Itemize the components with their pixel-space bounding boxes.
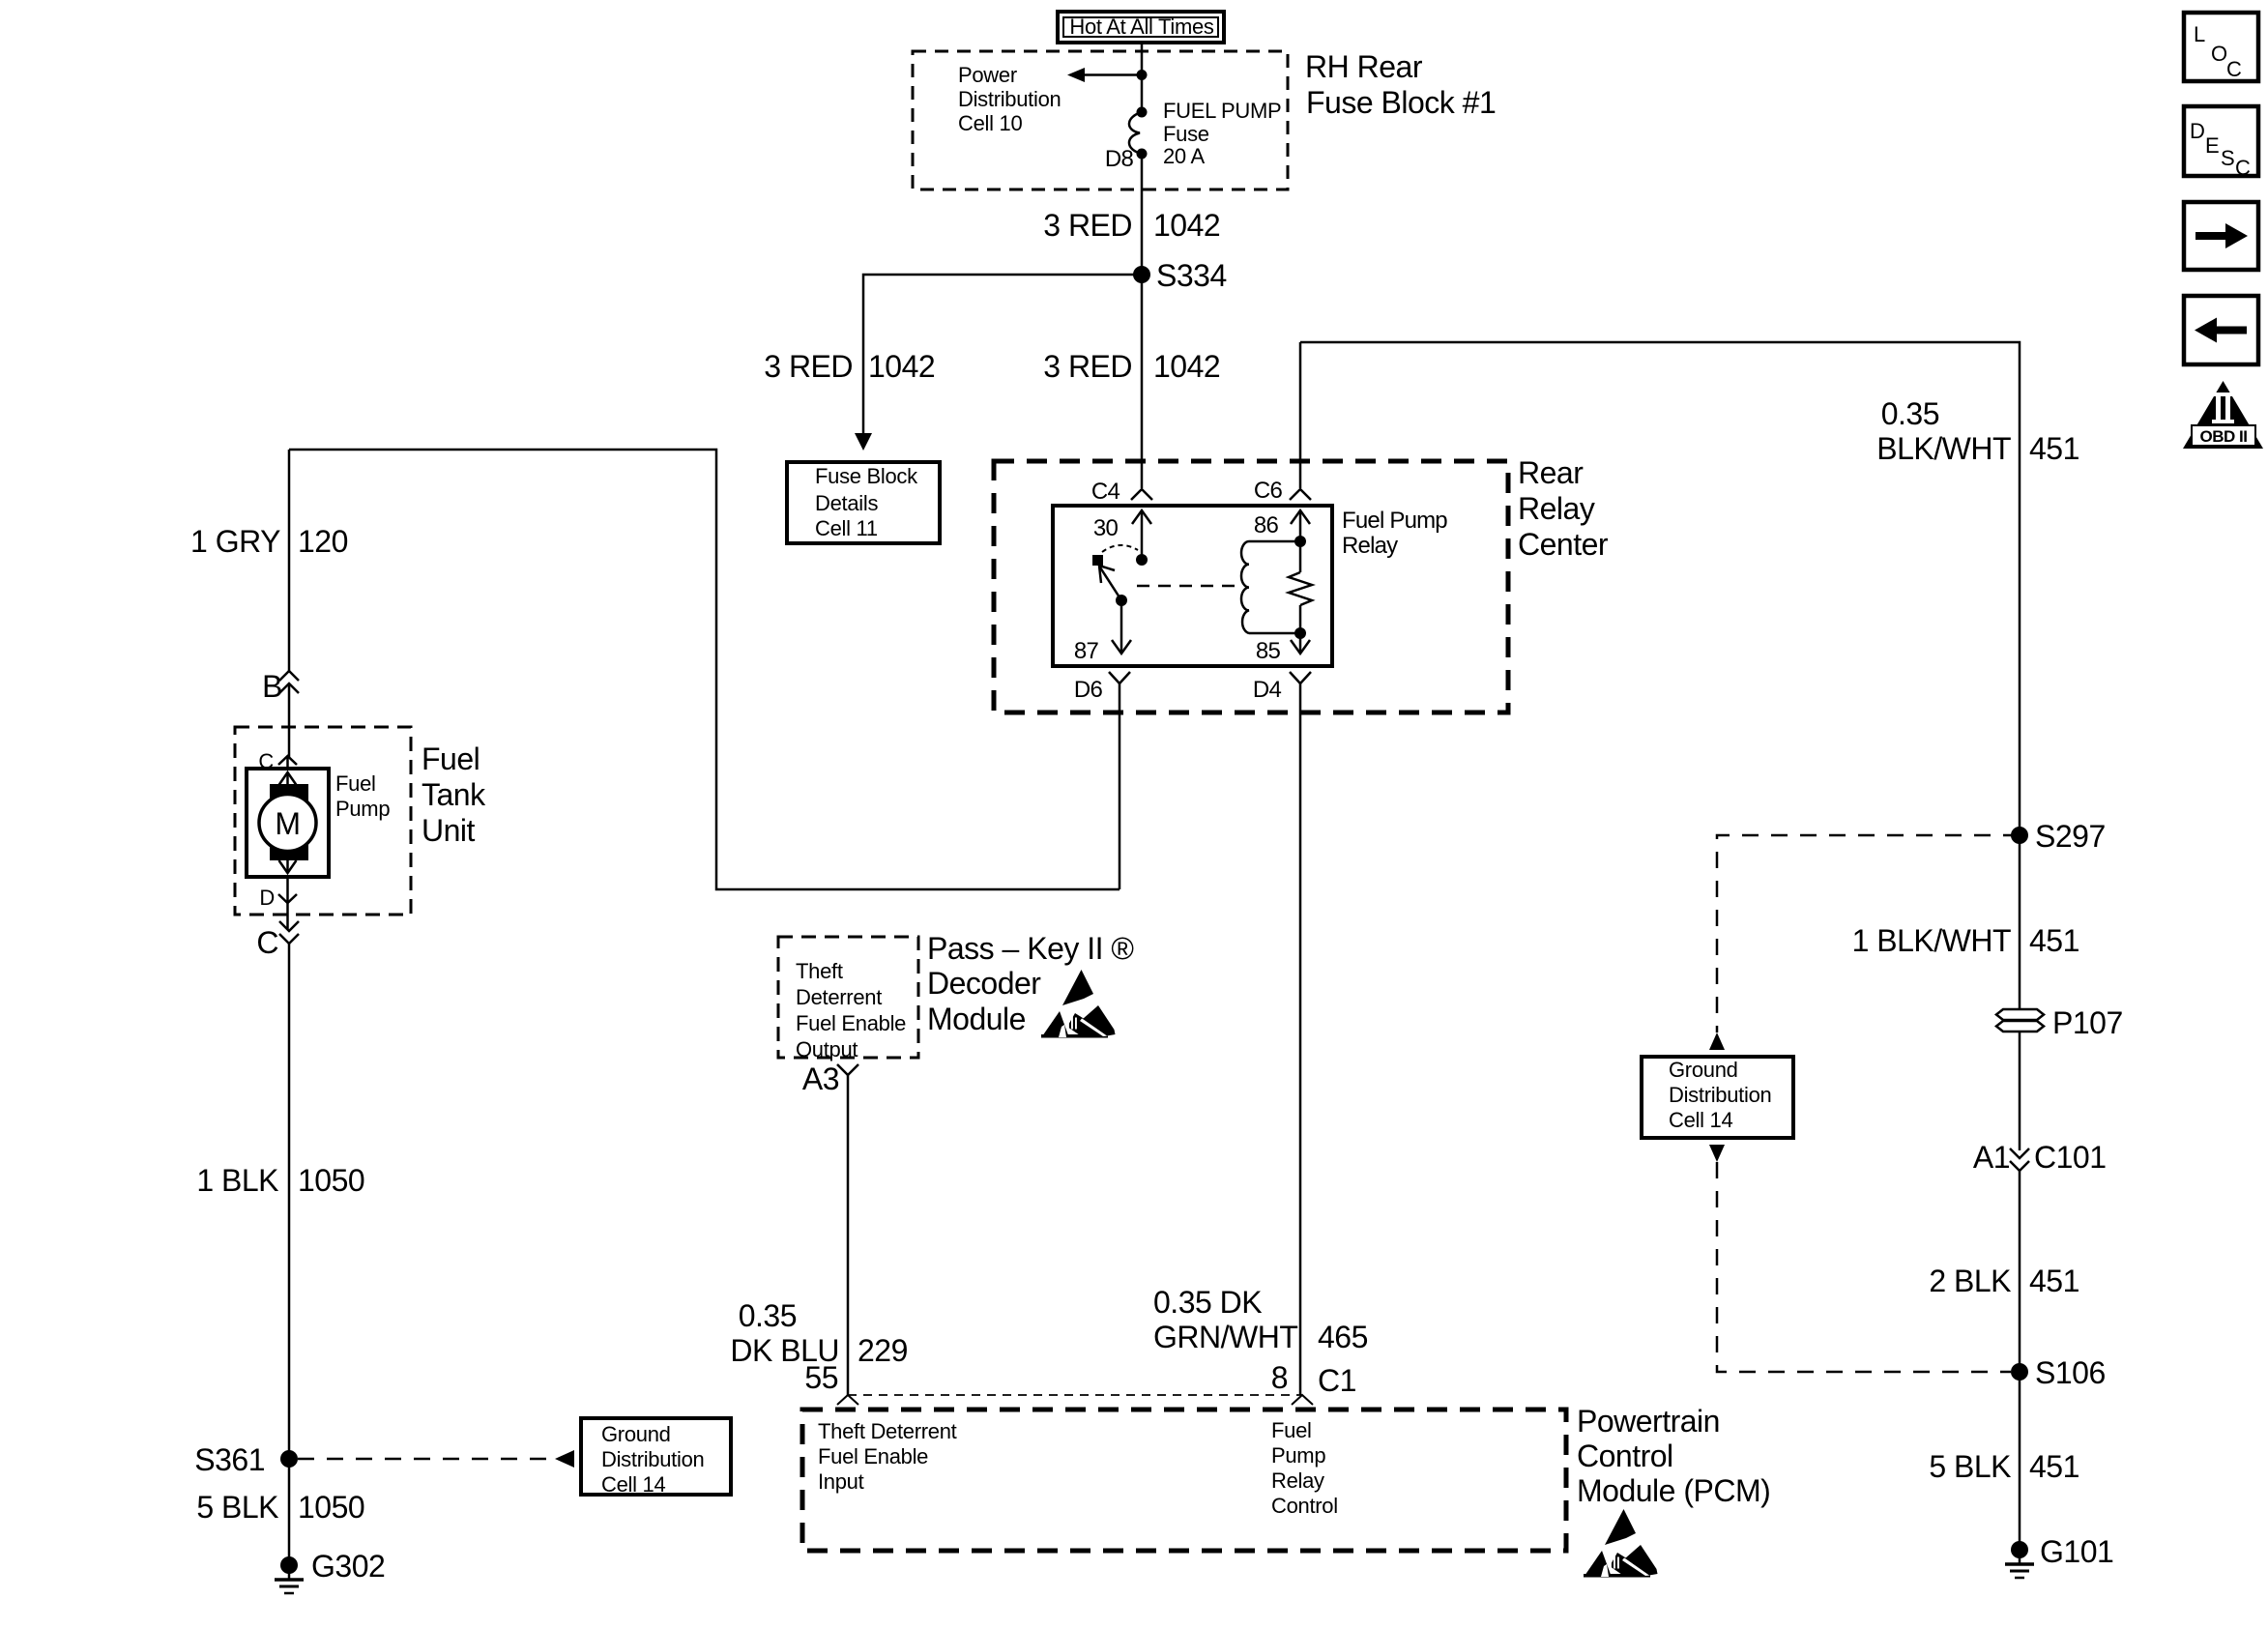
svg-text:Rear: Rear (1518, 455, 1584, 490)
svg-text:451: 451 (2029, 1449, 2079, 1484)
svg-text:Input: Input (818, 1469, 864, 1494)
svg-text:D: D (2190, 119, 2205, 143)
svg-text:86: 86 (1254, 512, 1279, 538)
svg-text:Relay: Relay (1518, 491, 1595, 526)
svg-text:Fuel Enable: Fuel Enable (796, 1011, 906, 1035)
svg-text:C1: C1 (1318, 1363, 1356, 1398)
svg-text:B: B (262, 669, 282, 704)
svg-text:S: S (2221, 146, 2234, 170)
svg-text:A1: A1 (1973, 1140, 2010, 1175)
svg-text:229: 229 (858, 1333, 908, 1368)
svg-text:C101: C101 (2034, 1140, 2107, 1175)
svg-text:20 A: 20 A (1163, 144, 1205, 168)
svg-text:Theft: Theft (796, 959, 843, 983)
svg-text:FUEL PUMP: FUEL PUMP (1163, 99, 1281, 123)
svg-text:451: 451 (2029, 431, 2079, 466)
svg-text:Fuse Block: Fuse Block (815, 464, 918, 488)
svg-text:Pump: Pump (335, 797, 390, 821)
svg-text:3 RED: 3 RED (1043, 208, 1132, 243)
svg-text:451: 451 (2029, 923, 2079, 958)
svg-text:G302: G302 (311, 1549, 385, 1584)
svg-text:Module (PCM): Module (PCM) (1577, 1473, 1770, 1508)
svg-text:1 GRY: 1 GRY (190, 524, 280, 559)
svg-text:E: E (2205, 133, 2219, 158)
svg-text:Unit: Unit (422, 813, 476, 848)
svg-text:Fuse Block #1: Fuse Block #1 (1306, 85, 1496, 120)
svg-text:P107: P107 (2052, 1005, 2123, 1040)
svg-text:1050: 1050 (298, 1490, 364, 1525)
svg-text:C4: C4 (1091, 479, 1120, 505)
svg-text:D4: D4 (1253, 677, 1282, 703)
svg-text:C: C (2226, 57, 2242, 81)
svg-text:M: M (275, 806, 300, 841)
svg-text:C: C (256, 925, 278, 960)
svg-text:RH Rear: RH Rear (1305, 49, 1423, 84)
svg-text:Module: Module (927, 1002, 1026, 1036)
svg-text:Center: Center (1518, 527, 1609, 562)
svg-text:A3: A3 (802, 1061, 839, 1096)
svg-text:87: 87 (1074, 638, 1099, 664)
svg-text:Control: Control (1577, 1439, 1673, 1473)
svg-text:Fuse: Fuse (1163, 122, 1209, 146)
svg-text:2 BLK: 2 BLK (1929, 1264, 2011, 1298)
svg-text:Distribution: Distribution (958, 87, 1061, 111)
svg-text:Cell 14: Cell 14 (1669, 1108, 1732, 1132)
svg-text:Relay: Relay (1342, 533, 1398, 559)
svg-text:Cell 10: Cell 10 (958, 111, 1022, 135)
svg-text:Pass – Key II ®: Pass – Key II ® (927, 931, 1134, 966)
svg-text:Hot At All Times: Hot At All Times (1069, 15, 1214, 39)
svg-text:30: 30 (1093, 515, 1119, 541)
svg-text:120: 120 (298, 524, 348, 559)
svg-text:Ground: Ground (1669, 1058, 1738, 1082)
svg-text:Output: Output (796, 1037, 858, 1061)
svg-text:Fuel: Fuel (422, 741, 480, 776)
svg-text:Tank: Tank (422, 777, 486, 812)
svg-text:0.35: 0.35 (1881, 396, 1939, 431)
svg-text:Distribution: Distribution (1669, 1083, 1771, 1107)
svg-text:Powertrain: Powertrain (1577, 1404, 1720, 1439)
svg-text:451: 451 (2029, 1264, 2079, 1298)
svg-text:1042: 1042 (1153, 208, 1220, 243)
svg-text:3 RED: 3 RED (1043, 349, 1132, 384)
svg-text:Fuel: Fuel (335, 771, 376, 796)
svg-text:0.35: 0.35 (739, 1298, 797, 1333)
svg-text:S106: S106 (2035, 1355, 2106, 1390)
svg-text:8: 8 (1271, 1360, 1288, 1395)
svg-text:C6: C6 (1254, 478, 1283, 504)
svg-text:Cell 14: Cell 14 (601, 1472, 665, 1497)
svg-text:O: O (2211, 42, 2227, 66)
svg-text:D: D (259, 886, 275, 910)
svg-text:C: C (2235, 156, 2251, 180)
svg-text:Power: Power (958, 63, 1017, 87)
svg-text:0.35 DK: 0.35 DK (1153, 1285, 1262, 1320)
svg-text:Distribution: Distribution (601, 1447, 704, 1471)
svg-text:Decoder: Decoder (927, 966, 1041, 1001)
svg-text:D6: D6 (1074, 677, 1103, 703)
svg-text:Cell 11: Cell 11 (815, 516, 878, 540)
svg-text:S334: S334 (1156, 258, 1227, 293)
svg-text:1 BLK/WHT: 1 BLK/WHT (1852, 923, 2011, 958)
svg-text:1042: 1042 (1153, 349, 1220, 384)
svg-text:D8: D8 (1105, 146, 1134, 172)
svg-text:Pump: Pump (1271, 1443, 1325, 1468)
svg-text:5 BLK: 5 BLK (1929, 1449, 2011, 1484)
svg-text:465: 465 (1318, 1320, 1368, 1354)
svg-text:GRN/WHT: GRN/WHT (1153, 1320, 1297, 1354)
svg-text:BLK/WHT: BLK/WHT (1876, 431, 2011, 466)
svg-text:3 RED: 3 RED (764, 349, 853, 384)
svg-text:55: 55 (804, 1360, 838, 1395)
svg-text:Fuel Pump: Fuel Pump (1342, 508, 1447, 534)
svg-text:5 BLK: 5 BLK (196, 1490, 278, 1525)
svg-text:S361: S361 (194, 1442, 265, 1477)
svg-text:1 BLK: 1 BLK (196, 1163, 278, 1198)
svg-text:Ground: Ground (601, 1422, 671, 1446)
svg-text:Control: Control (1271, 1494, 1338, 1518)
svg-text:Relay: Relay (1271, 1468, 1324, 1493)
svg-text:Details: Details (815, 491, 878, 515)
svg-text:85: 85 (1256, 638, 1281, 664)
svg-text:OBD II: OBD II (2200, 427, 2248, 446)
svg-text:Deterrent: Deterrent (796, 985, 882, 1009)
svg-text:1042: 1042 (868, 349, 935, 384)
svg-text:Fuel: Fuel (1271, 1418, 1312, 1442)
svg-text:Theft Deterrent: Theft Deterrent (818, 1419, 957, 1443)
svg-text:1050: 1050 (298, 1163, 364, 1198)
svg-text:G101: G101 (2040, 1534, 2113, 1569)
svg-text:Fuel Enable: Fuel Enable (818, 1444, 928, 1468)
svg-text:S297: S297 (2035, 819, 2106, 854)
svg-text:L: L (2194, 22, 2205, 46)
